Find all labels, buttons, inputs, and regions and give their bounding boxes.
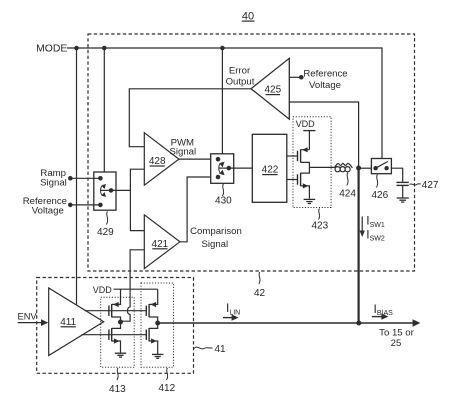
label Error Output: [226, 65, 255, 87]
switch 430 contacts and wiper arrows: [216, 157, 231, 179]
ground (412): [152, 354, 163, 358]
wire PWM signal 428 output to 430: [179, 158, 211, 160]
svg-text:421: 421: [152, 239, 169, 250]
wire switch node down to output line (ISW path): [358, 168, 360, 323]
node reference voltage terminal: [299, 75, 304, 80]
figure title 40: [242, 11, 255, 23]
label 413 with squiggle leader: [109, 368, 126, 395]
wire 411 lower output to NMOS gates (413 and 412): [82, 334, 147, 336]
svg-text:41: 41: [215, 344, 227, 355]
svg-text:Comparison: Comparison: [190, 226, 242, 237]
wire ENV input with arrowhead: [18, 319, 49, 326]
dotted block 412 outline: [141, 283, 174, 367]
dotted block 423 outline: [293, 117, 331, 208]
svg-text:Signal: Signal: [201, 239, 228, 250]
op-amp U425 error amplifier (points left): [251, 58, 289, 119]
wire 429 output rail to 428 lower input and 421 upper input: [130, 169, 144, 230]
svg-text:VDD: VDD: [296, 119, 316, 129]
svg-text:424: 424: [339, 188, 356, 199]
node output junction to IBIAS: [356, 321, 361, 326]
switch 430 box: [211, 154, 234, 184]
label 429 with squiggle leader: [97, 212, 114, 239]
transistor NMOS (423 lower): [298, 167, 310, 198]
wire 426 to capacitor 427: [391, 168, 402, 182]
svg-text:Signal: Signal: [169, 147, 196, 158]
inductor L424: [334, 163, 352, 171]
node: MODE to switch 430 branch: [220, 46, 225, 51]
svg-text:Voltage: Voltage: [32, 206, 64, 217]
svg-text:426: 426: [371, 190, 388, 201]
label 430 with squiggle leader: [215, 184, 232, 206]
block 422: [252, 134, 286, 202]
svg-text:425: 425: [264, 85, 281, 96]
label Reference Voltage (top right): [303, 68, 347, 90]
label To 15 or 25: [379, 328, 414, 349]
wire 429 output to rail: [111, 189, 130, 191]
ground (413): [115, 353, 126, 357]
svg-text:411: 411: [60, 317, 76, 328]
wire reference voltage input to 425: [289, 76, 301, 78]
node switch node junction (after inductor): [356, 166, 361, 171]
label 424 with squiggle leader: [339, 173, 356, 200]
wire error output from 425 apex to comparator 428 upper input: [129, 89, 251, 147]
svg-text:ILIN: ILIN: [226, 301, 240, 316]
wire 422 upper output to 423 PMOS gate: [287, 155, 298, 157]
wire MODE down to switch 429 control: [103, 48, 105, 172]
current arrow ILIN: [223, 314, 239, 320]
ground (427): [397, 198, 409, 202]
label 41 with tilde leader: [194, 344, 226, 355]
comparator 421: [144, 215, 180, 269]
dashed block 42 outline: [88, 34, 415, 271]
label 426 with squiggle leader: [371, 175, 388, 202]
op-amp 411 envelope amplifier: [49, 288, 104, 356]
svg-text:VDD: VDD: [93, 285, 113, 295]
node ramp signal terminal: [68, 176, 73, 181]
wire comparison signal 421 output up to 430 lower input: [180, 177, 211, 242]
svg-text:413: 413: [109, 384, 126, 395]
wire switch node to 426: [359, 167, 372, 169]
ground (423): [304, 199, 316, 203]
node 412 output junction: [155, 321, 160, 326]
comparator 428 (PWM): [144, 133, 179, 186]
svg-text:Output: Output: [226, 77, 255, 88]
power VDD (41): [93, 285, 158, 295]
dotted block 413 outline: [101, 297, 135, 367]
svg-text:412: 412: [158, 383, 175, 394]
wire 430 output to 422: [229, 167, 253, 169]
wire ramp signal to 429: [70, 177, 100, 179]
capacitor C427: [397, 182, 409, 185]
dashed block 41 outline: [37, 278, 194, 374]
svg-text:ENV: ENV: [18, 312, 38, 322]
transistor PMOS (413 upper): [109, 289, 121, 322]
svg-text:428: 428: [149, 156, 166, 167]
svg-text:To 15 or: To 15 or: [379, 328, 414, 339]
label PWM Signal: [169, 137, 196, 157]
label 42 with squiggle leader: [254, 272, 266, 299]
svg-text:Reference: Reference: [303, 68, 347, 79]
wire feedback from switch node to 425 lower input: [289, 102, 358, 166]
wire 422 lower output to 423 NMOS gate: [287, 179, 298, 181]
switch 429 contacts and wiper arrows: [98, 176, 113, 207]
wire MODE down to amplifier 411: [76, 48, 78, 306]
transistor NMOS (412 lower): [146, 323, 157, 354]
transistor PMOS (423 upper): [298, 147, 310, 167]
label Comparison Signal: [190, 226, 242, 250]
wire 423 output to inductor 424: [309, 166, 334, 168]
label Reference Voltage (left): [23, 196, 67, 217]
wire output arrow To 15 or 25: [359, 319, 421, 326]
label 423 with squiggle leader: [311, 209, 328, 232]
switch 429 box: [94, 172, 116, 210]
svg-text:427: 427: [422, 180, 439, 191]
transistor PMOS (412 upper): [146, 289, 157, 323]
label Ramp Signal: [40, 168, 67, 189]
svg-text:Voltage: Voltage: [309, 80, 341, 91]
svg-text:42: 42: [254, 288, 266, 299]
wire capacitor to ground: [402, 185, 404, 197]
svg-text:Signal: Signal: [40, 178, 67, 189]
svg-text:25: 25: [391, 338, 402, 349]
svg-text:ISW2: ISW2: [366, 228, 385, 243]
svg-text:Error: Error: [229, 65, 251, 76]
svg-text:423: 423: [311, 221, 328, 232]
wire 411 upper output to PMOS gates (413 and 412): [85, 310, 147, 312]
transistor NMOS (413 lower): [109, 322, 121, 353]
MODE wire (top horizontal, corner down to switch 426 control): [67, 48, 382, 159]
wire reference voltage to 429: [70, 204, 100, 206]
node: MODE to 411 branch: [74, 46, 79, 51]
current arrow IBIAS: [372, 313, 389, 319]
power VDD (423): [296, 119, 316, 150]
wire ILIN output line: [158, 322, 359, 324]
wire 421 lower input rail down to 413 output node (with hop over gate wire): [122, 250, 144, 321]
svg-text:MODE: MODE: [36, 44, 67, 55]
node: MODE to switch 429 branch: [102, 46, 107, 51]
svg-text:422: 422: [262, 165, 279, 176]
current arrow ISW: [360, 217, 365, 238]
node 413 output junction: [118, 320, 123, 325]
svg-text:429: 429: [97, 227, 114, 238]
node reference voltage terminal (left): [68, 203, 73, 208]
label 412 with squiggle leader: [158, 368, 175, 394]
svg-text:430: 430: [215, 195, 232, 206]
switch 426: [371, 159, 391, 174]
label 427 with tilde leader: [410, 180, 439, 191]
wire MODE down to switch 430 control: [221, 48, 223, 154]
